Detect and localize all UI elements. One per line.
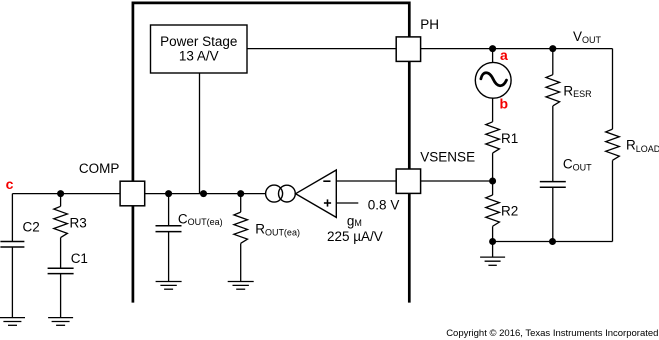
svg-text:c: c bbox=[6, 176, 14, 192]
wire plus input to 0.8V reference bbox=[336, 202, 358, 204]
svg-text:RESR: RESR bbox=[563, 84, 592, 99]
ground (below C1) bbox=[48, 318, 73, 326]
svg-text:0.8 V: 0.8 V bbox=[368, 197, 400, 212]
resistor RESR bbox=[546, 75, 560, 106]
wire PH to VOUT rail bbox=[421, 48, 613, 50]
wire RLOAD to rail bbox=[612, 160, 614, 241]
node a bbox=[489, 45, 496, 52]
capacitor C1 bbox=[48, 268, 74, 273]
op-amp minus input mark bbox=[323, 180, 330, 182]
svg-text:PH: PH bbox=[420, 17, 439, 32]
svg-text:225 µA/V: 225 µA/V bbox=[327, 229, 383, 244]
ground (below ROUT(ea)) bbox=[228, 282, 254, 290]
wire Power Stage to PH pin bbox=[247, 48, 396, 50]
wire VSENSE pin to divider bbox=[421, 180, 493, 182]
svg-text:R3: R3 bbox=[70, 215, 87, 230]
resistor R1 bbox=[486, 122, 500, 153]
svg-text:gM: gM bbox=[347, 213, 362, 228]
current mirror output circles bbox=[266, 185, 283, 202]
node VOUT junction bbox=[549, 45, 556, 52]
svg-text:VSENSE: VSENSE bbox=[420, 149, 475, 164]
wire VOUT to RLOAD bbox=[612, 49, 614, 130]
ground rail wire bbox=[493, 241, 613, 243]
svg-text:C1: C1 bbox=[71, 251, 88, 266]
node ground junction bbox=[489, 238, 496, 245]
pin COMP bbox=[120, 181, 145, 206]
svg-text:ROUT(ea): ROUT(ea) bbox=[255, 222, 300, 238]
wire node a to AC source bbox=[492, 49, 494, 63]
AC source bbox=[475, 62, 511, 98]
wire COMP net to error amp bbox=[145, 193, 266, 195]
svg-text:Power Stage: Power Stage bbox=[160, 34, 237, 49]
svg-text:Copyright © 2016, Texas Instru: Copyright © 2016, Texas Instruments Inco… bbox=[446, 328, 658, 339]
capacitor COUT(ea) bbox=[168, 194, 170, 226]
resistor R3 bbox=[60, 194, 62, 207]
pin PH bbox=[396, 37, 420, 62]
wire COMP to node c bbox=[12, 193, 120, 195]
wire Power Stage down to COMP net bbox=[199, 73, 201, 194]
capacitor C2 bbox=[11, 194, 13, 242]
wire minus input to VSENSE pin bbox=[336, 180, 396, 182]
op-amp gM triangle bbox=[296, 170, 337, 217]
wire R3 to C1 bbox=[60, 238, 62, 269]
node ROUT(ea) junction bbox=[237, 190, 244, 197]
svg-text:RLOAD: RLOAD bbox=[626, 137, 659, 154]
node power stage junction bbox=[200, 190, 207, 197]
resistor ROUT(ea) bbox=[240, 194, 242, 213]
capacitor COUT bbox=[540, 182, 566, 188]
wire R2 to ground bbox=[492, 226, 494, 257]
svg-text:COMP: COMP bbox=[79, 161, 120, 176]
ground (below C2) bbox=[0, 318, 25, 326]
ground (below COUT(ea)) bbox=[156, 282, 182, 290]
resistor R2 bbox=[486, 195, 500, 226]
wire RESR to COUT bbox=[552, 106, 554, 181]
resistor RLOAD bbox=[606, 129, 620, 160]
svg-text:13 A/V: 13 A/V bbox=[179, 48, 219, 63]
IC boundary bbox=[133, 3, 409, 303]
svg-text:COUT: COUT bbox=[563, 156, 592, 172]
svg-text:C2: C2 bbox=[23, 220, 40, 235]
wire VOUT to RESR bbox=[552, 49, 554, 75]
svg-text:b: b bbox=[500, 96, 509, 112]
node COUT(ea) junction bbox=[165, 190, 172, 197]
Power Stage box bbox=[151, 25, 248, 73]
svg-text:R1: R1 bbox=[501, 131, 518, 146]
svg-text:COUT(ea): COUT(ea) bbox=[178, 211, 223, 227]
wire COUT to rail bbox=[552, 187, 554, 241]
ground (below R2) bbox=[480, 257, 505, 265]
svg-text:VOUT: VOUT bbox=[573, 29, 602, 45]
node COUT rail junction bbox=[549, 238, 556, 245]
svg-text:R2: R2 bbox=[501, 203, 518, 218]
label Power Stage 13 A/V bbox=[160, 34, 237, 63]
wire R1 to R2 bbox=[492, 153, 494, 195]
svg-text:a: a bbox=[500, 47, 508, 63]
pin VSENSE bbox=[396, 169, 420, 193]
node VSENSE junction bbox=[489, 178, 496, 185]
wire AC source to R1 bbox=[492, 98, 494, 122]
node R3 junction bbox=[57, 190, 64, 197]
op-amp plus input mark bbox=[324, 202, 331, 204]
